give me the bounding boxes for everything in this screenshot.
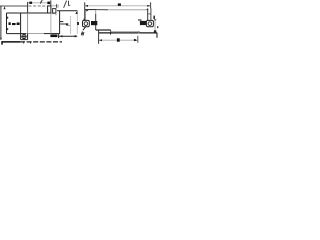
right arrowhead of end view width dimension xyxy=(75,35,78,38)
right arrowhead of length dimension xyxy=(147,5,150,7)
cap line over right terminal block xyxy=(138,19,142,21)
tail block of right arrowhead xyxy=(134,39,136,41)
front view body top edge xyxy=(7,12,51,14)
end view right edge (faint) xyxy=(76,14,78,34)
bottom bushing right edge xyxy=(27,34,29,40)
side view top edge (left, solid) xyxy=(85,9,96,11)
side view body left edge xyxy=(84,9,86,20)
side view bottom edge (left, solid) xyxy=(96,29,111,31)
mounting plane baseline with left corner xyxy=(2,42,20,45)
right extension line of top width dimension xyxy=(50,0,52,6)
end view middle step line xyxy=(60,23,66,25)
small tick above secondary protrusion xyxy=(56,4,58,8)
front view body right edge (faint) xyxy=(50,13,52,34)
left arrowhead of length dimension xyxy=(85,5,88,7)
leader slash annotation xyxy=(64,1,67,8)
mounting hole cross vertical xyxy=(23,34,25,39)
end view top edge xyxy=(57,10,78,12)
end view left edge xyxy=(59,11,61,34)
end view inner hidden line xyxy=(70,16,72,34)
left terminal solid block xyxy=(91,21,97,25)
bottom bushing left edge xyxy=(20,34,22,40)
mounting hole cross horizontal xyxy=(21,36,26,38)
right terminal solid block xyxy=(140,21,146,25)
mounting hole circle xyxy=(22,34,26,38)
lead tick 1 on baseline xyxy=(23,42,25,44)
bottom bushing bottom edge xyxy=(21,39,28,41)
arrowhead of protrusion-height dimension xyxy=(4,6,6,9)
small annotation right of body xyxy=(153,16,155,19)
left arrowhead of dimension C xyxy=(99,39,102,41)
extension line from top protrusion to left margin xyxy=(0,5,28,7)
lower step stub xyxy=(68,25,70,27)
inner edge above right terminal xyxy=(147,9,149,21)
base plate right corner drop xyxy=(156,33,158,38)
end view upper step line xyxy=(60,21,64,23)
right arrowhead of dimension C xyxy=(135,39,138,41)
lead tick 2 on baseline xyxy=(30,42,32,44)
ledge right of protrusion box xyxy=(51,13,56,15)
right terminal hole xyxy=(148,22,152,26)
corner arrowhead at top left of side view xyxy=(86,10,89,12)
secondary top protrusion box xyxy=(53,9,56,13)
corner arrowhead at top right of side view xyxy=(146,8,148,10)
side view top edge (middle) xyxy=(96,9,108,11)
lower arrowhead bump on left edge xyxy=(7,28,8,30)
label C of pitch dimension xyxy=(117,38,120,41)
mounting plane dashed continuation xyxy=(20,41,62,43)
arrowhead under end view top right corner xyxy=(75,11,77,14)
background xyxy=(0,0,160,46)
hidden extension line (dashed) toward protrusion box xyxy=(29,5,48,7)
right extension line of pitch dimension xyxy=(137,36,139,43)
extension stub right of top dimension xyxy=(51,5,57,7)
inner edge above left terminal (faint) xyxy=(95,10,97,14)
top width dimension line (front view) xyxy=(28,2,51,4)
oblique tick of chained dimension xyxy=(40,1,41,4)
length dimension label (illegible) xyxy=(118,3,121,5)
left terminal hole xyxy=(84,22,88,26)
marking text blob 1 xyxy=(9,22,11,25)
marking text blob 3 xyxy=(17,23,20,26)
front view body bottom edge (left, solid) xyxy=(7,33,27,35)
ledge corner drop xyxy=(55,14,57,16)
terminal left edge inside body xyxy=(20,13,22,34)
right extension tick above base plate xyxy=(138,31,140,34)
side view length dimension line xyxy=(85,5,151,7)
terminal right edge inside body (hidden) xyxy=(27,13,29,34)
cap of right extension line xyxy=(154,19,156,21)
left extension line of pitch dimension xyxy=(98,31,100,44)
front view body left edge xyxy=(6,13,8,34)
stub on right edge xyxy=(148,13,151,15)
inner edge above left terminal (solid) xyxy=(95,14,97,30)
tick at right end of faint bottom edge xyxy=(138,31,140,33)
small zigzag annotation lower left xyxy=(81,32,84,35)
overall-height dimension line (front view, far left) xyxy=(0,6,2,40)
base plate line xyxy=(99,32,158,34)
side view body right edge xyxy=(150,8,152,21)
end view width dimension line xyxy=(59,35,77,37)
extension tick for end view width dimension xyxy=(58,34,60,38)
step end block xyxy=(66,23,68,25)
upper arrowhead bump on left edge xyxy=(7,17,8,19)
dimension label (left, illegible) xyxy=(29,2,32,4)
front view body bottom edge (right, solid) xyxy=(44,33,60,35)
top protrusion box xyxy=(48,6,51,13)
serif of oblique tick xyxy=(42,0,44,2)
side view bottom edge (right, faint) xyxy=(111,31,139,33)
tick above left terminal housing xyxy=(83,19,85,21)
bottom arrowhead of overall-height dimension xyxy=(0,38,2,41)
small block on end view right edge xyxy=(77,22,79,25)
pitch dimension line C xyxy=(99,39,138,41)
foot of letter-L annotation xyxy=(69,4,71,6)
left extension tick of top width dimension xyxy=(27,2,29,7)
step tick on bottom edge xyxy=(110,30,112,35)
right terminal housing (rounded box) xyxy=(146,20,153,26)
dimension label (right, illegible) xyxy=(47,2,50,5)
terminal right edge extension above body xyxy=(27,7,29,13)
marking text blob 2 xyxy=(12,23,16,25)
left terminal lead (slash) xyxy=(83,27,86,31)
left extension line of side view length dimension xyxy=(84,2,86,9)
left terminal housing (rounded box) xyxy=(83,20,90,26)
letter-L shaped annotation stroke xyxy=(68,1,70,6)
front view body bottom edge (middle, faint) xyxy=(26,33,44,35)
extension line right of terminal (faint) xyxy=(154,20,156,33)
second faint tick above secondary protrusion xyxy=(57,5,59,8)
end view width dimension label (illegible) xyxy=(50,35,57,38)
blob above base plate right end xyxy=(154,30,156,32)
left arrowhead of end view width dimension xyxy=(60,35,63,37)
side view top edge (right, faint) xyxy=(108,9,147,11)
small block at far right xyxy=(157,26,158,28)
right extension line of side view length dimension xyxy=(150,2,152,8)
